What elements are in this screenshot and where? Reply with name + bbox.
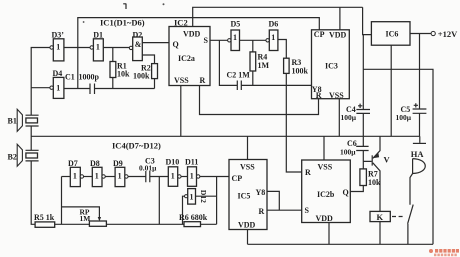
svg-text:S: S — [305, 206, 310, 215]
svg-text:VDD: VDD — [316, 214, 334, 223]
inverter D5 — [228, 20, 241, 51]
speaker B1 — [8, 109, 39, 131]
wire D9 out to C3 — [128, 176, 146, 178]
svg-text:B2: B2 — [8, 153, 17, 162]
wire RP to R6 — [106, 223, 184, 225]
svg-text:1: 1 — [73, 172, 77, 181]
svg-text:V: V — [384, 155, 391, 165]
wire K bottom — [379, 222, 381, 245]
resistor R6 680k — [179, 213, 208, 227]
inverter D4 — [50, 69, 64, 98]
svg-text:1: 1 — [56, 84, 60, 93]
inverter D3 — [50, 31, 64, 61]
svg-text:VSS: VSS — [174, 76, 189, 85]
svg-text:D4: D4 — [53, 69, 63, 78]
svg-text:D2: D2 — [133, 31, 143, 40]
svg-text:K: K — [377, 212, 384, 222]
inverter D7 — [68, 159, 84, 187]
svg-text:C1: C1 — [65, 73, 75, 82]
svg-text:Q: Q — [173, 40, 179, 49]
stray mark top center — [123, 4, 126, 10]
wire D7 out to D8 — [84, 176, 93, 178]
wire R3 bottom down to IC2b R — [286, 73, 301, 172]
bottom VDD rail — [248, 243, 434, 245]
wire IC6 out to +12V — [410, 33, 431, 35]
label IC4(D7~D12) — [112, 140, 161, 150]
resistor R7 10k — [360, 169, 381, 187]
svg-text:D9: D9 — [113, 159, 123, 168]
svg-text:IC4(D7~D12): IC4(D7~D12) — [112, 140, 161, 150]
svg-text:R: R — [259, 207, 265, 216]
wire D5 out to D6 in — [240, 40, 266, 52]
wire +12V top rail — [193, 7, 372, 34]
wire C5 bottom to HA corner — [419, 113, 421, 136]
wire D12 out down to R6 wire — [183, 196, 185, 224]
wire B1 node to D3/D4 inputs — [31, 48, 50, 116]
svg-text:1M: 1M — [80, 214, 91, 223]
svg-text:VSS: VSS — [318, 162, 333, 171]
svg-text:CP: CP — [232, 174, 243, 183]
svg-text:IC3: IC3 — [325, 62, 338, 71]
IC3 counter box — [312, 30, 350, 100]
capacitor C1 1000p — [65, 73, 100, 95]
stray dot speck — [83, 3, 165, 23]
svg-text:1000p: 1000p — [79, 73, 100, 82]
svg-text:100μ: 100μ — [396, 113, 412, 122]
inverter D9 — [113, 159, 128, 187]
capacitor C2 1M — [227, 71, 251, 91]
wire D7 in — [62, 176, 71, 178]
wire C1 to R1/R2 bottoms — [95, 78, 155, 89]
svg-text:R: R — [316, 91, 322, 100]
wire D11 node down to D12 in — [196, 177, 217, 225]
wire D7 input feedback vertical — [61, 177, 63, 225]
inverter D1 — [90, 31, 103, 61]
svg-text:10k: 10k — [368, 178, 381, 187]
svg-text:100μ: 100μ — [341, 113, 357, 122]
wire D2 pin2 to R2 top — [142, 55, 154, 64]
inverter D6 — [266, 20, 278, 51]
wire D2 out to IC2a Q — [142, 42, 169, 44]
svg-text:D8: D8 — [90, 159, 100, 168]
svg-text:R6 680k: R6 680k — [179, 213, 208, 222]
svg-text:Y8: Y8 — [256, 188, 266, 197]
svg-text:1: 1 — [190, 172, 194, 181]
svg-text:HA: HA — [411, 149, 425, 159]
resistor R2 100k — [133, 64, 158, 81]
wire IC5 VDD to bottom rail — [247, 230, 249, 245]
watermark — [429, 249, 459, 256]
svg-text:D12: D12 — [199, 190, 208, 203]
svg-text:IC5: IC5 — [238, 192, 251, 201]
svg-text:D5: D5 — [231, 20, 241, 29]
wire supply vertical to C4 — [362, 35, 364, 110]
label IC2 — [174, 18, 188, 28]
wire IC6 bottom drop — [390, 45, 392, 136]
svg-text:D6: D6 — [269, 20, 279, 29]
wire C6 bottom to base node — [363, 151, 371, 169]
resistor R3 100k — [284, 58, 309, 76]
IC5 counter box — [229, 160, 267, 230]
ground rail — [31, 135, 420, 137]
svg-text:D1: D1 — [93, 31, 103, 40]
sounder HA — [411, 136, 426, 173]
svg-text:1M: 1M — [258, 61, 270, 70]
resistor R1 10k — [110, 62, 130, 79]
svg-text:10k: 10k — [117, 70, 130, 79]
wire B1 to B2 — [30, 126, 32, 150]
svg-text:1: 1 — [56, 43, 60, 52]
wire supply horizontal to right edge — [363, 69, 433, 244]
svg-text:VDD: VDD — [183, 30, 201, 39]
svg-text:R5 1k: R5 1k — [34, 213, 55, 222]
wire +12V branch to C5 — [419, 34, 421, 110]
svg-text:D11: D11 — [185, 158, 198, 167]
svg-text:1: 1 — [118, 172, 122, 181]
svg-text:D10: D10 — [166, 158, 180, 167]
svg-text:VDD: VDD — [238, 221, 256, 230]
wire R6 right to D11 node — [201, 223, 217, 225]
svg-text:1: 1 — [271, 33, 275, 42]
switch contact — [408, 205, 414, 245]
relay K — [370, 211, 390, 222]
wire R7 bottom to IC2b Q — [350, 186, 363, 192]
svg-text:D3’: D3’ — [52, 31, 65, 40]
capacitor C5 100u — [396, 103, 427, 122]
IC6 box — [371, 22, 410, 46]
svg-text:100k: 100k — [292, 67, 309, 76]
wire D11 out to IC5 CP — [200, 176, 229, 178]
wire C3/D10 node down to R6 wire — [158, 177, 160, 225]
svg-text:C2 1M: C2 1M — [227, 71, 251, 80]
wire S node to C2 — [219, 40, 237, 85]
resistor R4 1M — [250, 52, 270, 71]
svg-text:1: 1 — [96, 43, 100, 52]
wire D4 out to C1 — [64, 88, 90, 90]
inverter D12 — [185, 189, 208, 205]
wire C2 to R3 bottom to IC3 Y8 — [241, 84, 311, 86]
svg-text:100μ: 100μ — [340, 147, 356, 156]
svg-text:CP: CP — [314, 30, 325, 39]
svg-text:1: 1 — [190, 193, 194, 202]
wire C4 bottom to rail — [362, 113, 364, 146]
svg-text:S: S — [204, 36, 209, 45]
speaker B2 — [8, 144, 39, 166]
wire IC3 VSS to ground rail — [338, 99, 340, 137]
svg-text:VDD: VDD — [329, 31, 347, 40]
svg-text:VSS: VSS — [329, 91, 344, 100]
wire IC2a VSS to ground rail — [180, 86, 182, 137]
svg-text:0.01μ: 0.01μ — [139, 164, 157, 173]
inverter D8 — [90, 159, 105, 187]
capacitor C6 100u — [340, 139, 369, 156]
node +12V terminal — [431, 29, 458, 39]
resistor R5 1k — [34, 213, 55, 227]
potentiometer RP 1M — [80, 208, 107, 227]
svg-text:IC6: IC6 — [386, 30, 399, 39]
capacitor C3 0.01u — [139, 156, 157, 182]
label IC1(D1~D6) — [100, 18, 145, 28]
wire IC5 Y8 to R to IC2b S — [267, 191, 302, 210]
capacitor C4 100u — [341, 104, 371, 122]
wire R5 to RP — [55, 223, 90, 225]
svg-text:IC2b: IC2b — [317, 190, 335, 199]
transistor V (PNP) — [372, 136, 390, 211]
wire RP wiper — [62, 207, 102, 221]
svg-text:1: 1 — [233, 33, 237, 42]
wire IC2a R to IC3 R — [200, 86, 319, 115]
wire IC5 VSS to rail — [247, 136, 249, 159]
dashed link K to switch — [392, 216, 405, 218]
svg-text:VSS: VSS — [240, 162, 255, 171]
wire B2 down to R5 — [31, 161, 35, 224]
svg-text:100k: 100k — [133, 72, 150, 81]
wire D1 out to D2 in — [103, 48, 129, 62]
wire C3 to D10 — [150, 176, 169, 178]
svg-text:R: R — [305, 168, 311, 177]
svg-text:&: & — [135, 40, 142, 49]
wire IC2b VDD to bottom rail — [328, 223, 330, 245]
wire IC2a S to D5 in — [210, 39, 228, 41]
svg-text:IC2a: IC2a — [178, 54, 195, 63]
svg-text:B1: B1 — [8, 117, 17, 126]
svg-text:1: 1 — [95, 172, 99, 181]
wire HA bottom to switch — [410, 174, 413, 205]
wire D8 out to D9 — [105, 176, 115, 178]
wire CP rail (D4/C1 node to IC3 CP) — [78, 18, 319, 89]
nand gate D2 — [129, 31, 142, 61]
svg-text:+12V: +12V — [438, 29, 458, 39]
IC2a flip-flop box — [169, 27, 210, 86]
inverter D11 — [185, 158, 200, 187]
wire R4 bottom — [252, 71, 254, 85]
svg-text:R: R — [200, 76, 206, 85]
inverter D10 — [166, 158, 182, 187]
svg-text:1: 1 — [171, 172, 175, 181]
svg-text:Q: Q — [343, 188, 349, 197]
wire D10 out to D11 — [181, 176, 187, 178]
IC2b flip-flop box — [302, 160, 351, 223]
svg-text:IC1(D1~D6): IC1(D1~D6) — [100, 18, 145, 28]
wire IC2b VSS to rail — [323, 136, 325, 160]
svg-text:D7: D7 — [68, 159, 78, 168]
wire D6 out to R3 top — [278, 40, 286, 59]
wire D3 out to D1 in — [64, 47, 90, 49]
